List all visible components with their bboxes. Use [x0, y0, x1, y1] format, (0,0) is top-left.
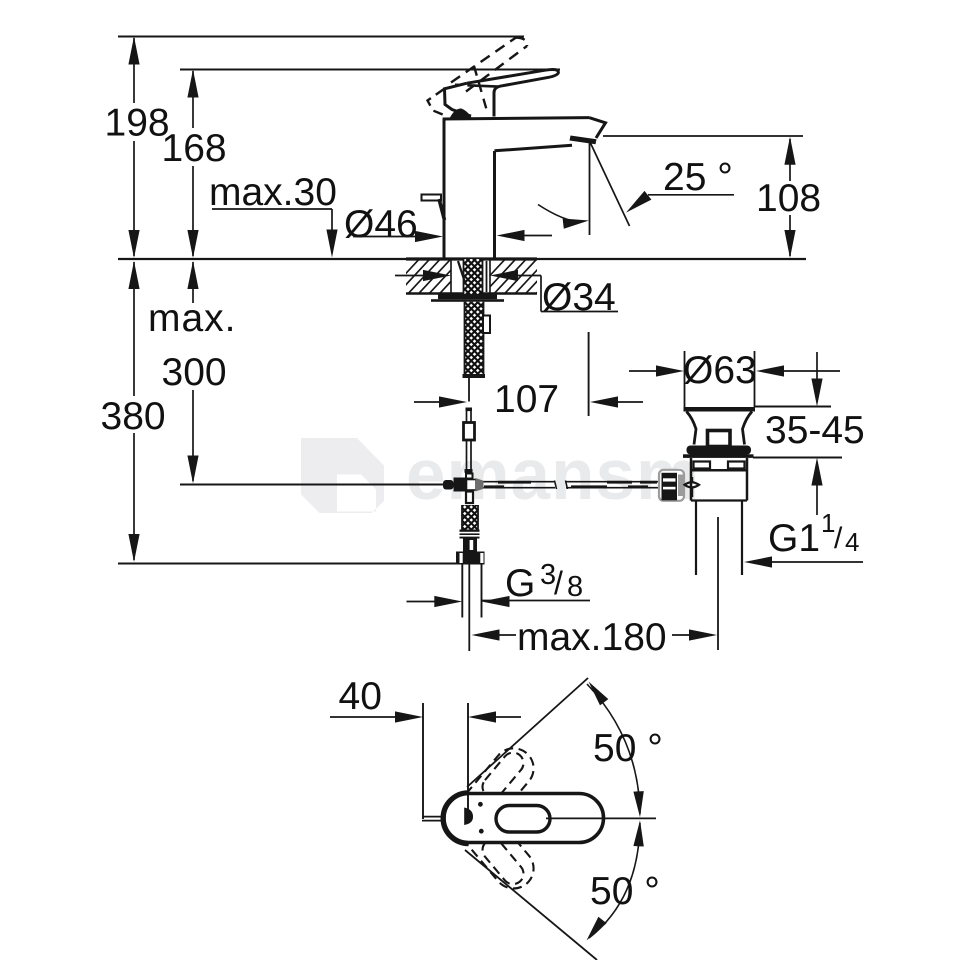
drain neck [687, 412, 753, 445]
countertop line [118, 258, 806, 260]
top view indicator dots [478, 802, 484, 834]
label Ø63 [683, 349, 757, 392]
supply nut [456, 552, 485, 565]
svg-text:25 °: 25 ° [663, 156, 733, 199]
extension line max300 bottom [180, 484, 445, 486]
label max.30 with leader [209, 171, 338, 258]
label 40 [339, 675, 382, 718]
extension lines 35-45 [753, 407, 842, 458]
faucet body outline [443, 118, 589, 258]
watermark logo [301, 438, 384, 513]
pop-up rod upper segment [466, 408, 473, 423]
svg-text:168: 168 [162, 127, 227, 170]
svg-text:300: 300 [162, 351, 227, 394]
lever handle dashed raised position [451, 38, 527, 115]
extension line spout tip 108 [603, 135, 803, 137]
top view logo mark [464, 808, 473, 826]
label 108 [756, 177, 821, 220]
spray angle slanted line [590, 141, 630, 226]
spray angle arc arrow [538, 205, 589, 229]
label G 3/8 with arrows [407, 559, 591, 607]
handle rotated dashed lower [453, 802, 541, 897]
dimension 35-45 arrows [811, 352, 822, 515]
drain plug rim [684, 407, 756, 412]
svg-text:50 °: 50 ° [593, 727, 663, 770]
drain plug sides / Ø63 extension lines [685, 351, 755, 407]
hose center line [468, 565, 470, 652]
aerator [570, 136, 597, 145]
label 50 degrees upper [593, 727, 663, 770]
drain tailpipe [696, 501, 742, 576]
top view body stadium [443, 793, 603, 844]
svg-text:/: / [834, 522, 843, 555]
label G1 1/4 with arrow [744, 508, 863, 568]
svg-text:max.180: max.180 [517, 616, 667, 659]
drain gasket [683, 446, 754, 458]
pop-up rod connector [464, 423, 475, 441]
pop-up pull rod knob [422, 195, 445, 221]
svg-text:198: 198 [105, 102, 170, 145]
dimension max.180 [472, 616, 718, 659]
dimension 380 vertical line [128, 261, 139, 562]
svg-text:107: 107 [494, 378, 559, 421]
label 380 [101, 395, 166, 438]
label 35-45 [765, 409, 865, 452]
lever pivot dome [450, 108, 472, 117]
ball joint lens [685, 477, 700, 497]
label 50 degrees lower [590, 870, 660, 913]
drain plug square knob [708, 431, 731, 447]
drain body [691, 458, 747, 501]
dimension 198 vertical line [128, 37, 139, 259]
svg-text:35-45: 35-45 [765, 409, 865, 452]
extension line top view center [467, 703, 469, 810]
label Ø34 with dimension arrows [395, 270, 618, 319]
label 25 degrees with leader arrow [626, 156, 734, 213]
svg-text:380: 380 [101, 395, 166, 438]
svg-text:emansm: emansm [406, 436, 700, 515]
extension line 107 right [588, 332, 590, 416]
extension line top 198 [118, 36, 524, 38]
svg-text:max.: max. [148, 297, 237, 340]
svg-text:G: G [505, 562, 535, 605]
hose collar ribbed [460, 530, 480, 539]
extension line 380 bottom [118, 563, 459, 565]
hose end fitting block [463, 539, 477, 552]
extension line top view back edge [422, 703, 424, 819]
flexible hose braided [463, 302, 491, 378]
svg-text:4: 4 [845, 527, 859, 557]
mounting hole edges [451, 259, 490, 294]
label Ø46 with dimension arrows [344, 203, 552, 246]
label 168 [162, 127, 227, 170]
supply pipe lines [462, 565, 481, 618]
faucet spout tip [495, 118, 606, 151]
rotation line upper 50 degrees [467, 678, 588, 787]
dimension max 300 vertical line [187, 261, 198, 484]
dimension Ø63 arrows [629, 365, 840, 376]
handle rotated dashed upper [453, 740, 541, 835]
tee junction [443, 474, 484, 504]
top view centerline [546, 817, 656, 819]
svg-text:max.30: max.30 [209, 171, 337, 214]
watermark text emansm [406, 436, 700, 515]
svg-text:Ø34: Ø34 [542, 276, 616, 319]
pop-up rod thin link [468, 378, 470, 402]
rotation arc upper [587, 682, 644, 818]
rotation line lower 50 degrees [465, 850, 597, 960]
dimension 108 vertical line [784, 137, 795, 258]
spray angle vertical reference line [589, 141, 591, 235]
extension line top 168 [180, 69, 560, 71]
svg-text:/: / [554, 565, 563, 601]
label max 300 [148, 297, 237, 394]
drain centerline [717, 517, 719, 650]
svg-text:8: 8 [567, 571, 583, 603]
pop-up rod lower segment [465, 440, 473, 473]
dimension 40 arrows [330, 711, 521, 722]
counter cross-section hatched [384, 255, 583, 297]
svg-text:G1: G1 [768, 517, 820, 560]
lever handle dashed lowered position [428, 89, 448, 117]
threaded shank in hole [458, 259, 487, 294]
svg-text:Ø46: Ø46 [344, 203, 418, 246]
svg-text:40: 40 [339, 675, 382, 718]
horizontal pop-up rod [484, 481, 660, 490]
rotation arc lower [587, 820, 644, 940]
top view handle slot [496, 806, 550, 833]
label 107 [494, 378, 559, 421]
hose lower braided section [462, 505, 479, 530]
svg-text:108: 108 [756, 177, 821, 220]
svg-text:Ø63: Ø63 [683, 349, 757, 392]
dimension 168 vertical line [187, 70, 198, 259]
top view back tab [422, 817, 445, 821]
label 198 [105, 102, 170, 145]
lever handle solid [445, 69, 559, 116]
svg-text:50 °: 50 ° [590, 870, 660, 913]
dimension 107 arrows [414, 396, 643, 407]
rod clamp knob at drain [659, 470, 685, 501]
mounting flange nut [431, 294, 504, 302]
